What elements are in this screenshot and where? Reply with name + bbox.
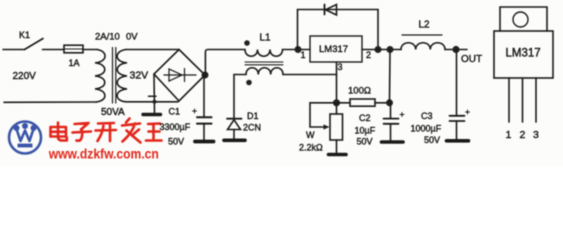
junction dot C2 branch <box>387 46 394 53</box>
watermark logo W strokes <box>17 129 34 141</box>
protection diode D2 cathode bar <box>324 5 326 15</box>
wire: 100ohm right to junction <box>375 102 389 104</box>
char wang <box>146 124 162 141</box>
regulator U1 LM317 box <box>310 36 362 62</box>
junction dot 100ohm right <box>386 99 393 106</box>
svg-text:www.dzkfw.com.cn: www.dzkfw.com.cn <box>48 146 159 162</box>
LM317 package tab <box>500 7 547 31</box>
svg-text:K1: K1 <box>19 30 30 40</box>
inductor L2 core line <box>402 34 442 36</box>
transformer T primary winding <box>95 50 105 103</box>
svg-text:LM317: LM317 <box>319 44 348 55</box>
package leg 2 <box>522 78 524 122</box>
L1 polarity dot top <box>244 40 250 46</box>
svg-text:50V: 50V <box>168 137 184 147</box>
ground bar C1 <box>195 140 214 144</box>
svg-text:1000µF: 1000µF <box>411 124 442 134</box>
ground bar C3 <box>447 139 469 143</box>
L1 polarity dot bottom <box>246 80 252 86</box>
wire: junction down to C3 <box>456 50 458 116</box>
svg-text:100Ω: 100Ω <box>348 86 371 97</box>
wire: bridge + riser to top rail <box>205 50 245 76</box>
resistor R1 100ohm <box>350 99 375 106</box>
junction dot C3/OUT <box>452 46 459 53</box>
svg-text:C3: C3 <box>421 111 433 121</box>
inductor L1 top winding <box>245 50 283 57</box>
transformer core <box>113 48 116 104</box>
svg-text:3: 3 <box>338 62 343 72</box>
inductor L2 winding <box>401 43 445 50</box>
package leg 1 <box>508 78 510 122</box>
capacitor C2 plates <box>384 119 399 124</box>
watermark chinese characters <box>51 119 162 143</box>
svg-text:10µF: 10µF <box>355 126 376 136</box>
wire: pot top <box>336 103 338 114</box>
wire: pin3 down <box>336 62 338 101</box>
char dian <box>51 123 67 141</box>
svg-text:32V: 32V <box>130 70 149 82</box>
wire: C2 to ground <box>390 124 392 141</box>
svg-text:1: 1 <box>301 50 306 60</box>
svg-text:2A/10: 2A/10 <box>95 32 120 43</box>
char kai <box>96 123 117 141</box>
svg-text:1A: 1A <box>69 58 80 68</box>
svg-text:50V: 50V <box>357 137 373 147</box>
svg-text:50VA: 50VA <box>101 107 125 118</box>
junction dot pin1 <box>295 46 302 53</box>
svg-text:W: W <box>306 130 315 140</box>
diode D1 triangle <box>228 120 241 130</box>
wire: bridge + down to C1 <box>203 75 205 117</box>
bridge rectifier diamond <box>154 50 205 102</box>
junction dot bridge + output <box>202 72 209 79</box>
char zi <box>73 123 92 141</box>
protection diode loop top wire <box>298 9 379 11</box>
svg-text:2CN: 2CN <box>243 123 261 133</box>
junction dot secondary-bottom / ground tap <box>153 100 157 104</box>
svg-text:2.2kΩ: 2.2kΩ <box>299 143 323 153</box>
wire: L1 bottom left to D1 <box>234 75 246 118</box>
wire: pin2 rail <box>362 49 401 51</box>
wire: 220V line top left <box>3 49 25 51</box>
capacitor C3 plates <box>450 116 465 121</box>
inductor L1 bottom winding <box>246 68 283 75</box>
svg-text:L2: L2 <box>419 20 431 31</box>
package leg 3 <box>535 78 537 122</box>
potentiometer W body <box>330 114 343 140</box>
svg-text:OUT: OUT <box>461 54 482 65</box>
svg-text:C1: C1 <box>169 107 181 117</box>
char fa <box>122 119 141 143</box>
svg-text:C2: C2 <box>359 113 371 123</box>
wire: switch to fuse <box>43 49 65 51</box>
wire: L1 bottom right to pin3 line <box>283 74 337 76</box>
wire: fuse to transformer primary <box>83 49 97 51</box>
watermark logo underline <box>18 144 33 148</box>
svg-text:3300µF: 3300µF <box>160 122 191 132</box>
wire: bridge left corner down to ground <box>153 74 156 114</box>
wire: C1 to ground <box>203 124 205 140</box>
svg-text:50V: 50V <box>424 135 440 145</box>
C2 plus mark <box>400 113 404 117</box>
wire: D1 to ground <box>233 130 235 140</box>
protection diode loop right vertical <box>377 10 379 50</box>
protection diode D2 triangle <box>326 5 337 16</box>
watermark logo W dots <box>14 125 20 131</box>
LM317 package body <box>494 31 553 78</box>
ground bar pot <box>329 153 347 157</box>
fuse F 1A <box>64 45 83 53</box>
ground bar (bridge negative) <box>143 113 161 116</box>
wire: L2 to OUT <box>445 49 467 51</box>
svg-text:2: 2 <box>520 129 526 141</box>
svg-text:L1: L1 <box>260 33 272 44</box>
C3 plus mark <box>466 110 470 114</box>
C1 plus mark <box>193 109 197 113</box>
wire: secondary top to bridge top corner <box>126 49 179 51</box>
wire: secondary bottom to bridge bottom corner <box>126 101 178 103</box>
ground bar D1 <box>224 139 245 143</box>
svg-text:LM317: LM317 <box>506 48 541 60</box>
wire: primary bottom to left <box>4 101 96 103</box>
wire: pot bottom <box>336 140 338 153</box>
LM317 package hole <box>513 12 528 27</box>
wire: junction down to C2 <box>390 103 392 118</box>
diode D1 cathode bar <box>227 118 242 120</box>
svg-text:1: 1 <box>506 129 512 141</box>
wire: dot to 100ohm <box>337 102 351 104</box>
potentiometer W wiper loop <box>310 103 337 127</box>
transformer T secondary winding <box>117 50 127 102</box>
wire: junction up to rail <box>389 50 392 103</box>
wire: C3 to ground <box>456 121 458 139</box>
ground bar C2 <box>382 140 404 144</box>
bridge inner diode <box>164 69 196 82</box>
watermark logo circle <box>9 122 41 154</box>
svg-text:220V: 220V <box>13 71 37 82</box>
protection diode loop left vertical <box>297 10 299 50</box>
junction dot pin3/100ohm/pot <box>333 99 340 106</box>
svg-text:3: 3 <box>533 129 539 141</box>
junction dot loop right <box>375 46 382 53</box>
svg-text:0V: 0V <box>126 32 138 43</box>
inductor L1 core lines <box>245 62 283 65</box>
potentiometer W arrowhead <box>324 124 330 129</box>
svg-text:2: 2 <box>366 50 371 60</box>
wire: L1 top right to LM317 pin1 <box>283 49 311 51</box>
capacitor C1 plates <box>197 117 212 123</box>
scan tick on ground drop <box>149 95 157 97</box>
switch K1 <box>25 39 44 50</box>
svg-text:D1: D1 <box>247 111 259 121</box>
